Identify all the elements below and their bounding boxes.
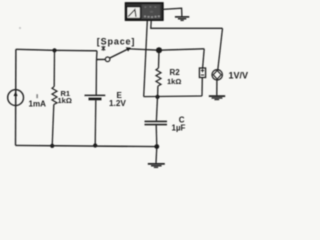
- wire: R2 lower lead: [157, 86, 159, 97]
- svg-text:1kΩ: 1kΩ: [58, 96, 72, 105]
- wire: cap lower lead to bottom rail: [155, 125, 158, 147]
- wire: R1 lower lead to bottom rail: [52, 105, 54, 147]
- wire: left column (node A to current source to bottom rail): [15, 49, 17, 145]
- svg-text:1mA: 1mA: [29, 100, 47, 109]
- wire: R1 column upper lead: [53, 50, 55, 86]
- oscilloscope panel area: [142, 5, 160, 19]
- VCVS E1 diamond: [213, 71, 221, 80]
- resistor R2: [156, 68, 161, 86]
- switch J1 lever arrowhead: [126, 47, 131, 51]
- switch J1 pivot circle: [105, 57, 110, 62]
- switch toggle star mark: [102, 46, 106, 51]
- wire: top rail right segment (lever tip to VCVS box): [130, 49, 205, 50]
- junction: R1 bottom dot: [50, 144, 54, 148]
- oscilloscope waveform trace: [128, 10, 136, 17]
- wire: battery lower lead to bottom rail: [94, 100, 97, 145]
- wire: VCVS box upper lead: [203, 49, 205, 68]
- wire: cap upper lead: [156, 97, 157, 121]
- svg-text:1V/V: 1V/V: [229, 71, 249, 81]
- ground (top right): [175, 17, 189, 21]
- junction: R2 top node dot: [156, 47, 162, 53]
- wire: scope right terminal to top ground: [163, 8, 182, 16]
- battery E top plate (long): [85, 94, 106, 96]
- svg-text:R2: R2: [170, 68, 181, 77]
- wire: bottom rail: [16, 145, 157, 146]
- wire: scope left probe stub down to cap node: [144, 21, 148, 97]
- wire: VCVS box lower lead: [201, 78, 203, 97]
- oscilloscope panel buttons: [144, 6, 160, 18]
- switch J1 lever: [110, 49, 128, 58]
- junction: bottom-right rail dot: [154, 144, 159, 149]
- VCVS E1 output circle: [212, 70, 222, 80]
- svg-text:[Space]: [Space]: [97, 36, 135, 46]
- ground (right, below VCVS): [209, 96, 225, 100]
- current source I1 arrow (pointing up): [15, 94, 17, 105]
- junction: battery bottom dot: [93, 143, 97, 147]
- svg-text:1µF: 1µF: [172, 124, 186, 133]
- wire: top rail left segment: [16, 49, 97, 51]
- battery E bottom plate (short thick): [89, 98, 102, 101]
- capacitor C top plate: [145, 120, 168, 122]
- svg-text:1.2V: 1.2V: [109, 99, 126, 108]
- wire: right column down to VCVS circle: [218, 28, 223, 70]
- faint scan speck: [19, 27, 21, 29]
- ground (bottom): [148, 164, 165, 168]
- svg-text:1kΩ: 1kΩ: [167, 77, 181, 86]
- wire: VCVS circle lower lead: [216, 80, 218, 95]
- capacitor C bottom plate: [145, 124, 168, 126]
- junction: cap top node dot: [155, 95, 159, 99]
- junction: R1 top node dot: [52, 48, 56, 52]
- switch J1 stub to pivot: [97, 58, 106, 60]
- wire: battery column upper lead (jog from rail): [95, 51, 98, 95]
- oscilloscope screen: [127, 7, 140, 18]
- oscilloscope XSC1 body: [126, 3, 163, 20]
- current source I1 (circle): [8, 90, 24, 106]
- VCVS input port polarity marks: [201, 70, 204, 72]
- wire: mid horizontal (scope stub to VCVS box lead): [144, 95, 202, 98]
- VCVS input port box: [199, 68, 205, 78]
- wire: stub to bottom ground: [155, 147, 158, 164]
- resistor R1: [52, 87, 57, 105]
- tick mark above 1mA: [36, 94, 38, 98]
- wire: R2 upper lead: [158, 50, 161, 68]
- wire: scope right probe stub: [151, 21, 223, 29]
